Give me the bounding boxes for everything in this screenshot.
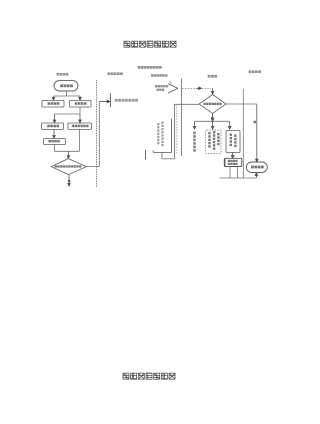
label 是 (254, 121, 256, 123)
wire bottom (220, 177, 257, 179)
arrow to box 定期检查 (53, 114, 56, 123)
diamond2 text (204, 103, 222, 105)
dashed box text col1 (208, 132, 210, 148)
stadium2 text (251, 166, 264, 169)
lane header 工作小组 (151, 74, 168, 77)
lane separator 3 (242, 89, 244, 178)
bracket hook (152, 151, 155, 153)
label 文件化的检查制度 (115, 99, 138, 102)
wire pb down left (229, 167, 231, 179)
diamond text (55, 165, 82, 167)
arrow into diamond (67, 151, 70, 158)
wire merge (55, 150, 80, 152)
arrow branch mid (211, 121, 214, 129)
wire hairpin down (174, 104, 176, 159)
wire diamond2 left (174, 103, 199, 105)
bracket horizontal (154, 151, 172, 153)
lane separator (dashed) (95, 80, 97, 188)
label 否 (68, 180, 70, 182)
arrow to 文件化检查制度 (99, 100, 110, 103)
dashed box text col2 (213, 131, 215, 150)
arrow 定期检查 to 处理意见 (53, 129, 56, 138)
wire pb down right (237, 167, 239, 179)
annotation line2 笔录 (157, 89, 165, 91)
box text (72, 125, 89, 128)
diamond 是否适用简易程序 (199, 95, 226, 114)
arrow branch left (193, 121, 196, 129)
lane header 相关执法机构 (107, 72, 122, 75)
box 处理意见 (44, 139, 66, 145)
stadium 结案归档 (246, 162, 267, 173)
wire b4 long down (78, 129, 80, 151)
box text (48, 140, 59, 143)
wire dashed to diamond (182, 87, 211, 89)
lane header 执法机构 (249, 70, 261, 73)
wire diamond right (86, 166, 99, 168)
wire 是 branch right (226, 103, 257, 105)
dashed parallel line (176, 104, 178, 154)
lane header 执法机构 (57, 73, 69, 76)
doc list col2 (161, 122, 163, 147)
arrow to box 工作检查 (52, 96, 55, 100)
arrow to box 专项活动检查 (79, 114, 82, 123)
lane header 负责人 (208, 75, 217, 78)
stadium text (60, 84, 73, 87)
dashed box text col3 (217, 133, 219, 145)
box 定期检查 (42, 123, 64, 129)
tick mark (145, 150, 147, 160)
page title2 行政处罚流程图 (123, 373, 175, 379)
diamond 是否重大复杂问题 (51, 159, 86, 175)
box 制作送达决定书 (226, 131, 240, 153)
box 专项检查 (70, 100, 91, 107)
wire stadium down (66, 91, 68, 96)
wire split3 (195, 120, 230, 122)
thick left side (224, 158, 226, 166)
doc list col1 (157, 123, 159, 144)
annotation line1 现场检查勘验 (155, 85, 168, 87)
box text (75, 102, 87, 105)
arrow branch right (228, 121, 231, 129)
wire up to annotation (98, 102, 100, 167)
subtitle 行政处罚简易程序流程图 (138, 66, 162, 69)
stadium 检查计划 (54, 81, 78, 91)
box text line2 (228, 163, 238, 165)
arrow to box 专项检查 (79, 96, 82, 100)
arrow into diamond2 (211, 88, 214, 94)
arrow to 缴纳罚款 (231, 153, 234, 159)
lane separator 2 (181, 79, 183, 157)
vertical text 按一般程序办理 (193, 132, 196, 152)
box text line1 (228, 160, 238, 162)
box 工作检查 (42, 100, 64, 107)
arrow 否 down exit (68, 175, 71, 187)
wire split top (54, 95, 81, 97)
wire b2 down (79, 107, 81, 114)
page title 行政检查流程图 (124, 41, 176, 47)
box text (48, 102, 60, 105)
wire b5 down (54, 145, 56, 152)
wire 否 below diamond2 (211, 113, 214, 121)
wire hairpin bottom (162, 158, 174, 160)
arrow up into stadium (255, 173, 258, 178)
box 缴纳罚款 (thick sides) (224, 158, 242, 166)
bracket vertical (171, 119, 173, 153)
dashed box 当场处罚决定 (206, 130, 221, 154)
box text col1 (230, 134, 232, 147)
open arrow tick (169, 82, 171, 84)
open arrow lower stroke (168, 88, 178, 93)
bracket bar (109, 93, 111, 107)
open arrow upper stroke (168, 84, 178, 89)
arrowhead on dashed wire (196, 87, 202, 90)
wire hairpin up-stub (161, 152, 163, 158)
box text (47, 125, 59, 128)
wire split mid (55, 113, 81, 115)
box text col2 (234, 135, 236, 148)
box 专项活动检查 (68, 123, 92, 129)
arrow 是 down into stadium (256, 104, 259, 162)
label 否 2 (211, 117, 213, 119)
